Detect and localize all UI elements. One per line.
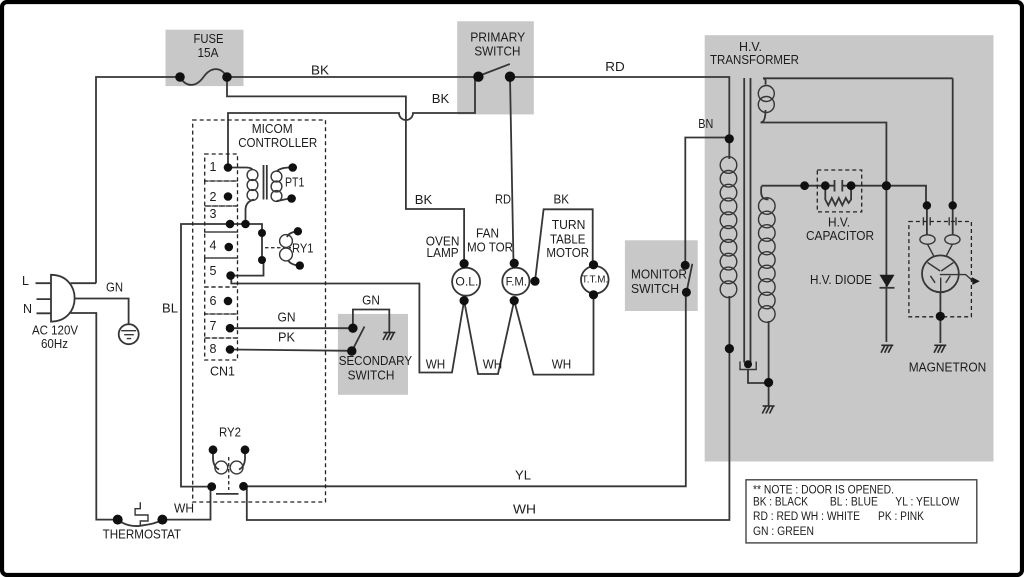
svg-text:PT1: PT1 <box>285 176 304 190</box>
svg-text:SWITCH: SWITCH <box>631 282 679 296</box>
svg-text:3: 3 <box>210 207 217 221</box>
svg-text:BN: BN <box>698 117 713 131</box>
svg-text:TABLE: TABLE <box>550 233 586 247</box>
svg-text:RD: RD <box>495 193 511 207</box>
svg-text:MO TOR: MO TOR <box>467 240 513 254</box>
svg-text:SECONDARY: SECONDARY <box>339 354 413 368</box>
svg-text:TRANSFORMER: TRANSFORMER <box>710 53 799 67</box>
svg-text:4: 4 <box>210 239 217 253</box>
svg-text:H.V.: H.V. <box>739 40 762 54</box>
svg-text:6: 6 <box>210 294 217 308</box>
svg-text:5: 5 <box>210 264 217 278</box>
svg-text:GN: GN <box>278 311 296 325</box>
svg-text:8: 8 <box>210 342 217 356</box>
svg-text:RY2: RY2 <box>219 426 241 440</box>
svg-text:15A: 15A <box>198 46 220 60</box>
svg-text:WH: WH <box>174 502 194 516</box>
svg-text:GN: GN <box>362 294 380 308</box>
svg-text:RD : RED WH : WHITE: RD : RED WH : WHITE <box>753 511 860 523</box>
svg-text:MICOM: MICOM <box>252 121 293 136</box>
svg-text:O.L.: O.L. <box>455 276 478 288</box>
svg-text:AC 120V: AC 120V <box>32 324 79 338</box>
svg-text:TURN: TURN <box>552 218 586 232</box>
svg-text:FAN: FAN <box>476 226 499 240</box>
svg-text:RY1: RY1 <box>292 242 314 256</box>
svg-text:PK : PINK: PK : PINK <box>878 511 924 523</box>
svg-text:T.T.M.: T.T.M. <box>582 275 608 286</box>
svg-text:WH: WH <box>552 357 572 371</box>
svg-text:F.M.: F.M. <box>506 276 527 288</box>
svg-text:L: L <box>22 274 29 288</box>
svg-text:GN : GREEN: GN : GREEN <box>753 526 814 538</box>
svg-text:WH: WH <box>513 503 536 517</box>
svg-text:MAGNETRON: MAGNETRON <box>909 361 987 375</box>
svg-text:H.V.: H.V. <box>828 216 850 230</box>
svg-text:7: 7 <box>210 319 217 333</box>
svg-text:BK: BK <box>311 64 330 78</box>
svg-text:BL : BLUE: BL : BLUE <box>830 497 878 509</box>
svg-text:LAMP: LAMP <box>427 246 459 260</box>
svg-text:WH: WH <box>426 357 446 371</box>
svg-text:BK: BK <box>432 92 450 106</box>
svg-text:RD: RD <box>605 60 625 74</box>
svg-text:THERMOSTAT: THERMOSTAT <box>103 528 182 542</box>
svg-text:BK: BK <box>415 193 433 207</box>
svg-text:BK : BLACK: BK : BLACK <box>753 497 808 509</box>
svg-text:BL: BL <box>162 302 178 316</box>
svg-text:GN: GN <box>106 281 123 295</box>
svg-text:SWITCH: SWITCH <box>348 368 395 382</box>
svg-text:PK: PK <box>278 331 296 345</box>
svg-text:YL: YL <box>515 469 531 483</box>
svg-text:PRIMARY: PRIMARY <box>470 31 526 45</box>
svg-text:CN1: CN1 <box>210 365 235 379</box>
svg-text:BK: BK <box>554 193 570 207</box>
svg-text:** NOTE : DOOR IS OPENED.: ** NOTE : DOOR IS OPENED. <box>753 485 894 497</box>
svg-text:H.V. DIODE: H.V. DIODE <box>810 273 872 287</box>
svg-text:CONTROLLER: CONTROLLER <box>238 135 317 150</box>
svg-text:SWITCH: SWITCH <box>474 45 520 59</box>
svg-text:FUSE: FUSE <box>194 32 224 46</box>
svg-text:YL : YELLOW: YL : YELLOW <box>895 497 959 509</box>
svg-text:N: N <box>23 302 32 316</box>
svg-text:MONITOR: MONITOR <box>631 268 687 282</box>
svg-text:WH: WH <box>483 357 503 371</box>
svg-text:60Hz: 60Hz <box>41 337 68 351</box>
svg-text:CAPACITOR: CAPACITOR <box>806 229 874 243</box>
svg-text:1: 1 <box>210 160 217 174</box>
svg-text:MOTOR: MOTOR <box>546 246 589 260</box>
svg-text:2: 2 <box>210 190 217 204</box>
